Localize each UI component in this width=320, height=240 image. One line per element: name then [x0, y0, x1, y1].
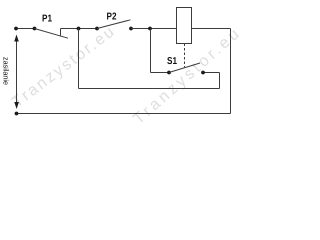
- node A junction dot: [77, 27, 81, 31]
- wire S1 return bottom: [79, 88, 220, 90]
- svg-text:S1: S1: [167, 56, 177, 67]
- wire bottom rail: [17, 113, 231, 115]
- switch S1 blade: [169, 63, 200, 73]
- switch P2 right contact dot: [129, 27, 133, 31]
- wire S1 right lead: [203, 72, 220, 74]
- supply arrowhead down: [14, 102, 19, 109]
- switch P1 contact stub: [60, 29, 62, 37]
- svg-text:P2: P2: [107, 12, 117, 23]
- supply arrow line: [16, 39, 18, 102]
- supply arrowhead up: [14, 35, 19, 42]
- wire top rail left segment: [16, 28, 35, 30]
- switch P2 blade: [97, 20, 131, 29]
- relay coil K1: [177, 8, 192, 44]
- switch P1 blade: [35, 29, 69, 39]
- wire node A down: [78, 29, 80, 89]
- wire S1 left lead: [151, 72, 170, 74]
- wire right side down: [230, 29, 232, 114]
- wire node C down: [150, 29, 152, 73]
- svg-text:zasilanie: zasilanie: [2, 57, 11, 85]
- switch P2 pivot dot: [95, 27, 99, 31]
- node C junction dot: [148, 27, 152, 31]
- contact S1 left dot: [167, 71, 171, 75]
- wire S1 return up: [219, 73, 221, 89]
- switch P1 pivot dot: [33, 27, 37, 31]
- wire top rail right segment: [131, 28, 176, 30]
- contact S1 right dot: [201, 71, 205, 75]
- node supply bottom junction: [15, 112, 19, 116]
- wire coil right to corner: [191, 28, 231, 30]
- node supply top junction: [14, 27, 18, 31]
- svg-text:P1: P1: [42, 14, 52, 25]
- dashed mechanical link coil to S1: [184, 44, 186, 68]
- wire top rail middle segment: [61, 28, 98, 30]
